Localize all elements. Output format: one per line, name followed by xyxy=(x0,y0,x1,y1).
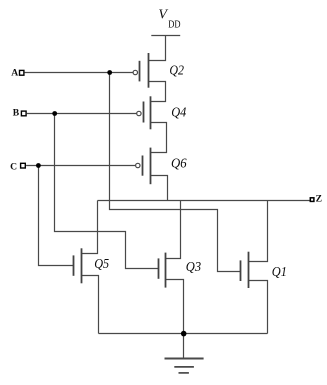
svg-text:A: A xyxy=(11,68,18,79)
transistor Q1 channel xyxy=(248,252,250,288)
transistor Q4 gate bar xyxy=(143,102,145,123)
junction node A xyxy=(107,70,112,75)
transistor Q6 channel xyxy=(150,148,152,185)
wire VDD stem to Q2 drain xyxy=(149,36,166,61)
svg-text:Q6: Q6 xyxy=(171,156,187,171)
svg-text:Q5: Q5 xyxy=(94,257,109,272)
svg-text:Q2: Q2 xyxy=(169,64,184,79)
wire Q3 source to ground rail xyxy=(166,280,184,334)
VDD rail xyxy=(151,35,180,37)
transistor Q4 channel xyxy=(150,96,152,129)
transistor Q5 channel xyxy=(81,248,83,283)
node Z rail xyxy=(98,200,310,202)
junction node B xyxy=(52,111,57,116)
wire node B to Q3 gate xyxy=(55,114,159,269)
svg-text:Q4: Q4 xyxy=(171,105,186,120)
transistor Q2 channel xyxy=(148,53,150,88)
svg-text:Q1: Q1 xyxy=(272,265,287,280)
svg-text:B: B xyxy=(13,107,20,118)
svg-text:V: V xyxy=(158,8,168,23)
transistor Q6 gate bar xyxy=(142,156,144,176)
transistor Q6 gate bubble xyxy=(136,163,140,167)
ground rail xyxy=(99,333,268,335)
wire Q6 source to node Z rail xyxy=(151,176,168,201)
wire Q2 source to Q4 drain xyxy=(149,82,166,102)
junction ground node xyxy=(181,331,187,337)
transistor Q4 gate bubble xyxy=(137,111,141,115)
transistor Q3 channel xyxy=(165,253,167,288)
wire input A to Q2 gate xyxy=(25,72,133,74)
ground symbol bars xyxy=(165,359,204,373)
input terminal C xyxy=(21,163,26,168)
svg-text:C: C xyxy=(10,162,17,173)
svg-text:Q3: Q3 xyxy=(186,260,201,275)
wire Q4 source to Q6 drain xyxy=(151,123,167,153)
wire Q5 drain to Z rail xyxy=(82,201,98,254)
wire input B to Q4 gate xyxy=(27,113,137,115)
input terminal A xyxy=(20,70,24,75)
svg-text:Z: Z xyxy=(316,193,322,204)
transistor Q5 gate bar xyxy=(73,255,75,275)
wire Q3 drain to Z rail xyxy=(166,201,181,259)
wire Q5 source to ground rail xyxy=(82,276,99,334)
transistor Q2 gate bar xyxy=(139,61,141,82)
wire node A to Q1 gate xyxy=(110,73,241,272)
wire Q1 drain to Z rail xyxy=(249,201,268,262)
transistor Q3 gate bar xyxy=(158,258,160,278)
wire Q1 source to ground rail xyxy=(249,281,268,334)
output terminal Z xyxy=(310,198,314,202)
wire ground stem xyxy=(183,334,185,359)
transistor Q2 gate bubble xyxy=(133,70,137,74)
transistor Q1 gate bar xyxy=(240,260,242,281)
input terminal B xyxy=(21,111,26,116)
wire node C to Q5 gate xyxy=(39,166,74,266)
svg-text:DD: DD xyxy=(168,19,181,30)
wire input C to Q6 gate xyxy=(26,165,135,167)
junction node C xyxy=(36,163,41,168)
